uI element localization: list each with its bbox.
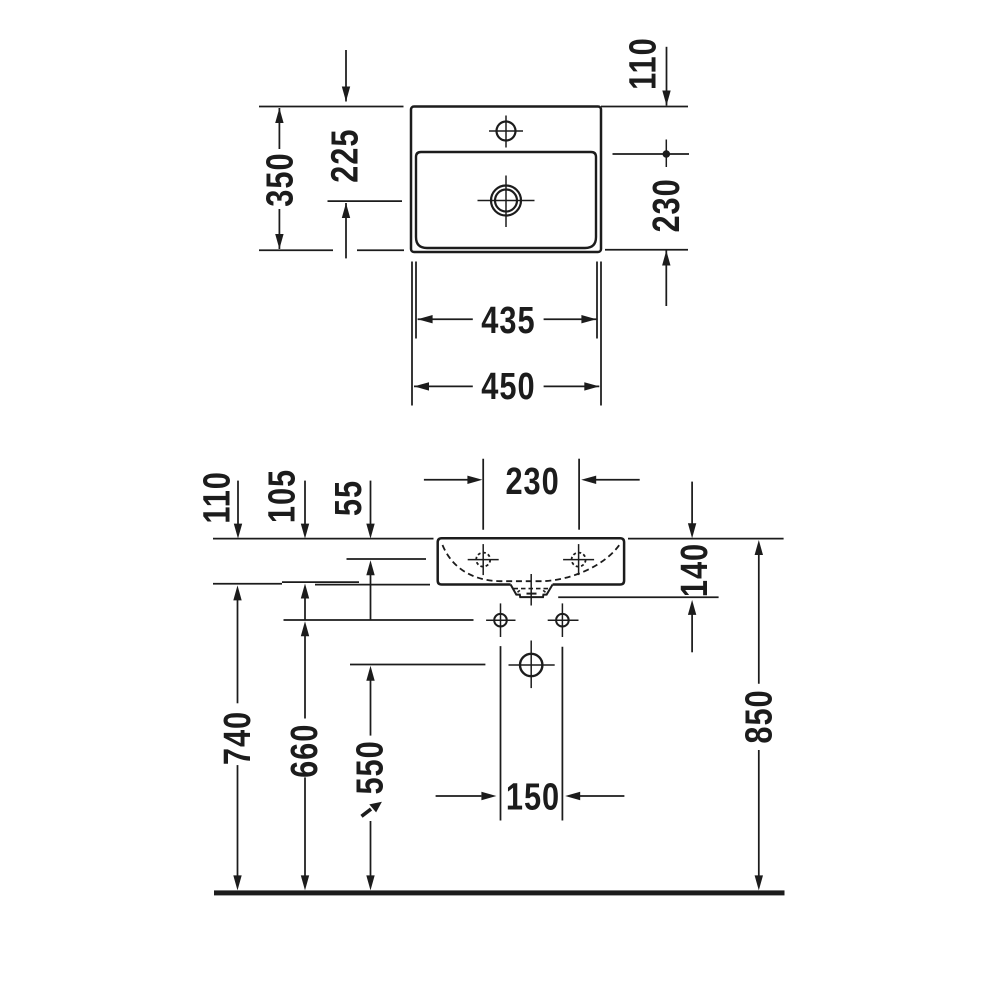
- svg-text:850: 850: [739, 689, 781, 743]
- svg-text:225: 225: [324, 129, 366, 183]
- svg-text:140: 140: [674, 543, 716, 597]
- svg-text:230: 230: [646, 178, 688, 232]
- svg-text:105: 105: [262, 469, 304, 523]
- svg-text:55: 55: [328, 480, 370, 516]
- svg-text:110: 110: [197, 471, 239, 524]
- svg-text:150: 150: [506, 777, 560, 819]
- svg-text:350: 350: [260, 152, 302, 206]
- svg-text:550: 550: [349, 740, 391, 794]
- svg-text:435: 435: [481, 300, 535, 342]
- svg-text:660: 660: [284, 724, 326, 778]
- svg-text:450: 450: [481, 366, 535, 408]
- svg-text:110: 110: [622, 37, 664, 90]
- svg-text:740: 740: [217, 711, 259, 765]
- svg-text:230: 230: [505, 461, 559, 503]
